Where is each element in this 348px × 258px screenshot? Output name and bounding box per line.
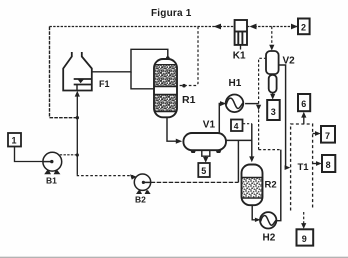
V1 support legs xyxy=(190,150,221,153)
wire R2 bottoms to H2 xyxy=(252,205,257,220)
wire B2 discharge to R2 feed riser xyxy=(151,181,239,183)
wire H2 outlet riser xyxy=(276,150,280,221)
arrow into box 3 xyxy=(270,94,275,100)
svg-text:F1: F1 xyxy=(99,79,110,89)
wire recycle loop left leg xyxy=(50,27,77,118)
svg-text:1: 1 xyxy=(12,136,17,146)
arrow into F1 bottom xyxy=(75,91,80,97)
svg-text:7: 7 xyxy=(325,131,330,141)
wire T1 upper side draw xyxy=(313,133,317,135)
arrow flow left on header at x=252 xyxy=(250,24,257,30)
box stream 9 xyxy=(297,229,314,245)
wire R1 bottoms to V1 xyxy=(167,117,178,141)
node junction at R1 right xyxy=(182,84,186,88)
wire V2 bottoms to box 3 xyxy=(272,93,274,96)
wire T1 overhead to box 6 xyxy=(303,117,305,125)
arrow into V2 top xyxy=(269,45,274,51)
svg-text:5: 5 xyxy=(201,166,206,176)
catalyst bed R1 upper xyxy=(155,65,176,87)
box stream 4 xyxy=(231,120,243,132)
wire dashed downcomer from V2 side xyxy=(259,58,266,149)
wire V1 bottoms to box 5 xyxy=(205,156,207,159)
wire recycle riser to V1 liquid line xyxy=(237,140,239,182)
svg-text:9: 9 xyxy=(302,234,307,244)
svg-text:R1: R1 xyxy=(182,94,196,106)
svg-text:8: 8 xyxy=(326,160,331,170)
pump B1 xyxy=(43,152,62,174)
wire V1 liquid to R2 feed line xyxy=(226,139,252,141)
flash drum V1 xyxy=(183,133,226,150)
svg-text:T1: T1 xyxy=(298,162,310,173)
wire H1 outlet to downcomer xyxy=(245,103,259,105)
arrow into V1 left xyxy=(176,139,182,144)
cooler H2 xyxy=(260,212,276,228)
arrow into B2 xyxy=(130,174,137,179)
svg-text:H1: H1 xyxy=(229,78,242,89)
box stream 8 xyxy=(322,155,335,172)
furnace F1 xyxy=(63,52,92,91)
scan artifact bottom edge xyxy=(0,256,348,258)
catalyst bed R1 lower xyxy=(155,95,176,112)
column T1 (dashed battery limit) xyxy=(291,124,313,211)
arrow into H2 left xyxy=(255,218,261,222)
arrow into box 8 xyxy=(316,161,322,166)
wire cold feed to pump B2 xyxy=(77,174,133,177)
wire T1 lower side draw xyxy=(313,163,318,165)
arrow flow down on downcomer xyxy=(256,105,261,111)
box stream 6 xyxy=(298,94,310,111)
wire dashed branch header down to V2 top xyxy=(271,27,273,47)
svg-text:B1: B1 xyxy=(46,176,57,186)
svg-text:3: 3 xyxy=(271,107,276,117)
reactor R2 xyxy=(242,165,263,206)
arrow into box 9 xyxy=(301,223,306,229)
box stream 3 xyxy=(267,100,280,120)
stripper V2 xyxy=(266,51,279,93)
cooler H1 xyxy=(226,95,244,113)
svg-text:H2: H2 xyxy=(263,233,276,244)
svg-text:B2: B2 xyxy=(135,195,146,205)
wire B1 discharge to furnace riser xyxy=(60,154,78,156)
svg-text:6: 6 xyxy=(301,99,306,109)
box stream 2 xyxy=(298,19,310,35)
svg-text:V1: V1 xyxy=(203,119,216,130)
arrow into box 2 xyxy=(291,24,298,30)
wire R2 feed line down xyxy=(251,124,253,159)
node junction R1 top xyxy=(166,56,170,60)
box stream 7 xyxy=(321,126,335,143)
box stream 5 xyxy=(198,163,210,177)
node junction loop / furnace feed xyxy=(76,116,79,119)
arrow into box 5 xyxy=(203,157,208,163)
catalyst bed R2 xyxy=(243,178,262,199)
arrow into box 6 xyxy=(301,112,306,118)
arrow into box 7 xyxy=(315,131,321,136)
wire K1 discharge to purge box 2 xyxy=(247,26,298,28)
svg-text:K1: K1 xyxy=(233,51,246,62)
wire F1 outlet to R1 (up and over) xyxy=(92,49,168,72)
wire T1 bottoms to box 9 xyxy=(303,212,305,224)
svg-text:R2: R2 xyxy=(265,180,277,191)
wire recycle gas header (top, K1 suction/discharge) xyxy=(50,26,235,28)
svg-text:Figura 1: Figura 1 xyxy=(151,8,192,19)
arrow into R2 top xyxy=(249,156,254,162)
compressor K1 xyxy=(235,20,247,50)
wire V2 side stream to T1 xyxy=(279,65,287,168)
V1 bottom boot xyxy=(202,150,210,156)
wire V1 vapor to H1 xyxy=(219,104,222,133)
wire box1 to pump B1 xyxy=(15,147,44,162)
arrow into T1 left xyxy=(285,165,291,170)
wire box 4 dashed tie-in xyxy=(243,123,252,125)
wire dashed cross header xyxy=(259,149,281,151)
wire furnace feed riser xyxy=(76,94,78,175)
pump B2 xyxy=(134,174,150,194)
wire F1 quench branch to R1 interbed xyxy=(131,72,155,89)
arrow flow left on header at x=218 xyxy=(214,24,222,30)
arrow into H1 left xyxy=(220,101,226,106)
reactor R1 xyxy=(154,59,177,117)
svg-text:2: 2 xyxy=(301,23,306,33)
box stream 1 xyxy=(8,133,21,147)
wire dashed branch header to R1 outlet xyxy=(179,27,198,86)
svg-text:4: 4 xyxy=(234,121,239,131)
